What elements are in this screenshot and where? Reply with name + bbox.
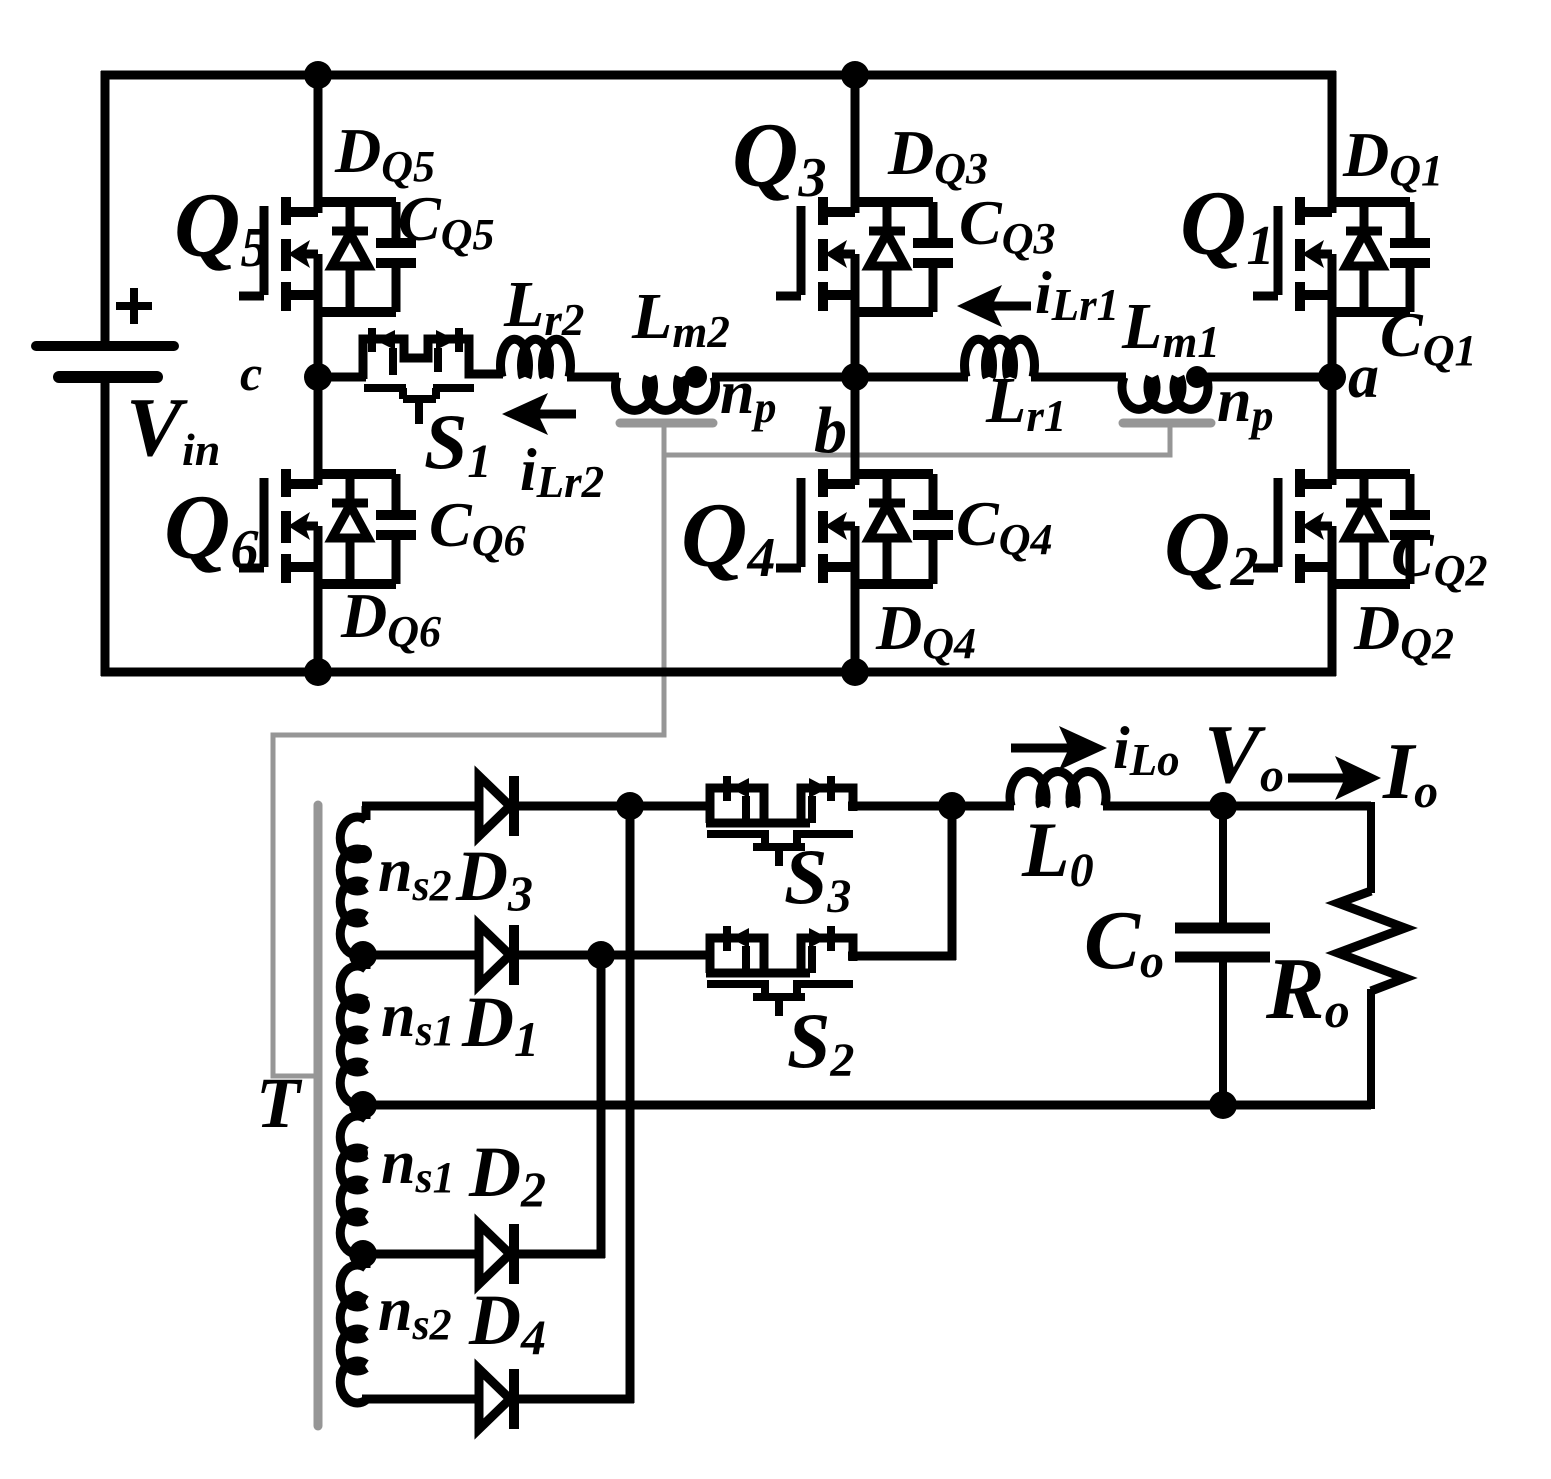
wire gray core link from Lm2 down to transformer T — [273, 425, 664, 1076]
wire top rail — [101, 71, 1336, 80]
battery plus sign — [116, 288, 152, 324]
svg-text:c: c — [240, 345, 262, 401]
node junction bottom rail / leg c — [304, 658, 332, 686]
polarity dot winding ns2 top — [354, 845, 372, 863]
wire gray core link from Lm1 to Lm2 branch — [664, 425, 1170, 455]
wire Lr1 to Lm1 — [1031, 373, 1126, 382]
diode D1 — [479, 925, 514, 985]
wire battery negative lead — [101, 377, 110, 676]
polarity dot winding ns1 third — [350, 1144, 368, 1162]
node junction S3/S2 outputs — [938, 792, 966, 820]
core bar of Lm2 — [620, 419, 713, 428]
diode D3 — [479, 776, 514, 836]
wire Lo to node Vo — [1103, 802, 1371, 811]
wire D3 cathode to S3 — [518, 802, 712, 811]
diode D2 — [479, 1224, 514, 1284]
wire center tap rail — [362, 1101, 1371, 1110]
wire D4 cathode to riser — [518, 1395, 634, 1404]
node junction D3/D4 cathodes — [616, 792, 644, 820]
wire leg b upper (top rail to Q3) — [851, 75, 860, 213]
inductor Lr1 — [965, 339, 1035, 377]
wire riser S2 output to junction — [948, 806, 957, 960]
transistor Q2 (MOSFET with body diode and capacitor) — [1253, 469, 1430, 584]
wire D2 row — [362, 1250, 479, 1259]
transistor Q6 (MOSFET with body diode and capacitor) — [239, 469, 416, 584]
transistor Q4 (MOSFET with body diode and capacitor) — [776, 469, 953, 584]
node Vo — [1209, 792, 1237, 820]
svg-text:b: b — [814, 394, 847, 467]
wire leg a upper (top rail to Q1) — [1328, 71, 1337, 213]
transformer T secondary winding ns2 (bottom) — [340, 1254, 366, 1403]
resistor Ro — [1338, 802, 1405, 1109]
bidirectional switch S3 (back-to-back MOSFET pair) — [706, 776, 853, 866]
wire riser D2 to D1 junction — [597, 955, 606, 1258]
svg-text:a: a — [1348, 343, 1379, 411]
svg-text:T: T — [256, 1063, 303, 1143]
wire Lm2 to node b — [712, 373, 855, 382]
transistor Q5 (MOSFET with body diode and capacitor) — [239, 197, 416, 312]
transformer T core bar — [314, 805, 323, 1426]
wire bottom rail — [101, 668, 1336, 677]
node tap ns2/ns1 — [349, 941, 377, 969]
wire Q2 source to bottom rail — [1328, 526, 1337, 676]
diode D4 — [479, 1369, 514, 1429]
transformer T secondary winding ns1 (second) — [340, 955, 366, 1105]
arrow iLr2 current direction — [502, 393, 576, 435]
wire Lr2 to Lm2 — [567, 373, 619, 382]
wire S2 output to riser — [848, 952, 956, 961]
arrow iLo current direction — [1011, 726, 1107, 770]
node junction top rail / leg c — [304, 61, 332, 89]
wire Q1 source to node a — [1328, 254, 1337, 377]
node junction top rail / leg b — [841, 61, 869, 89]
wire riser D4 to D3 junction — [626, 806, 635, 1403]
transistor Q1 (MOSFET with body diode and capacitor) — [1253, 197, 1430, 312]
transformer T secondary winding ns1 (third) — [340, 1105, 366, 1254]
node a — [1318, 363, 1346, 391]
inductor Lm2 magnetizing winding np — [615, 377, 715, 410]
node b — [841, 363, 869, 391]
polarity dot winding ns1 second — [352, 996, 370, 1014]
wire D2 cathode to riser — [518, 1250, 605, 1259]
inductor Lm1 magnetizing winding np — [1122, 377, 1208, 409]
wire node b to Q4 — [851, 377, 860, 485]
wire Q5 source to node c — [314, 254, 323, 377]
node junction Co / return rail — [1209, 1091, 1237, 1119]
wire battery positive lead — [101, 71, 110, 346]
node c — [304, 363, 332, 391]
transistor Q3 (MOSFET with body diode and capacitor) — [776, 197, 953, 312]
node junction D1/D2 cathodes — [587, 941, 615, 969]
wire Lm1 to node a — [1204, 373, 1332, 382]
polarity dot Lm2 — [685, 366, 707, 388]
polarity dot winding ns2 bottom — [348, 1291, 366, 1309]
wire S3 to output junction — [848, 802, 1014, 811]
wire D1 row (tap to S2) — [362, 951, 712, 960]
transformer T secondary winding ns2 (top) — [340, 806, 366, 955]
wire node c to Q6 — [314, 377, 323, 485]
inductor Lo — [1010, 771, 1106, 806]
wire D3 row (winding top to S3) — [362, 802, 479, 811]
wire D4 row — [362, 1395, 479, 1404]
wire Q3 source to node b — [851, 254, 860, 377]
wire Q4 source to bottom rail — [851, 526, 860, 676]
wire node a to Q2 — [1328, 377, 1337, 485]
arrow iLr1 current direction — [957, 285, 1031, 327]
core bar of Lm1 — [1123, 419, 1211, 428]
bidirectional switch S2 (back-to-back MOSFET pair) — [706, 926, 853, 1016]
wire node c to S1 — [318, 373, 366, 382]
arrow Io output current — [1288, 756, 1381, 800]
node tap ns1/ns2 — [349, 1240, 377, 1268]
wire leg c upper (top rail to Q5) — [314, 75, 323, 213]
capacitor Co — [1175, 806, 1270, 1105]
node junction bottom rail / leg b — [841, 658, 869, 686]
inductor Lr2 — [501, 339, 571, 377]
wire Q6 source to bottom rail — [314, 526, 323, 676]
node center tap — [349, 1091, 377, 1119]
wire node b to Lr1 — [855, 373, 968, 382]
battery Vin — [36, 346, 174, 377]
bidirectional switch S1 (back-to-back MOSFET pair) — [363, 328, 503, 424]
polarity dot Lm1 — [1186, 366, 1208, 388]
